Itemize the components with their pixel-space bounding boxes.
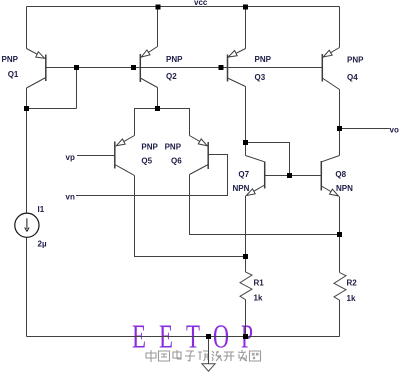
svg-text:PNP: PNP — [141, 143, 158, 152]
wire Q3 collector to Q7 collector — [245, 87, 247, 156]
node R1 bottom — [243, 334, 248, 339]
svg-text:Q8: Q8 — [335, 170, 346, 179]
wire vo stub — [340, 128, 390, 130]
svg-text:Q1: Q1 — [8, 70, 19, 79]
svg-text:R2: R2 — [347, 279, 358, 288]
svg-text:PNP: PNP — [2, 55, 19, 64]
node Q8 emitter / Q6 collector — [337, 232, 342, 237]
node vo — [337, 126, 342, 131]
wire R1 to bottom rail — [245, 300, 247, 337]
transistor Q8 — [321, 156, 339, 197]
svg-text:Q3: Q3 — [255, 73, 266, 82]
node vcc/Q2 emitter — [156, 5, 161, 10]
ground — [202, 364, 215, 371]
node base line / Q3 base — [219, 65, 224, 70]
wire Q1 base-collector loop — [27, 68, 77, 109]
resistor R1 — [240, 272, 252, 300]
current source I1 — [15, 213, 39, 237]
wire Q2 collector vertical — [157, 88, 159, 109]
svg-text:Q5: Q5 — [141, 157, 152, 166]
svg-text:NPN: NPN — [336, 184, 353, 193]
svg-text:NPN: NPN — [233, 184, 250, 193]
svg-text:I1: I1 — [38, 205, 45, 214]
svg-text:Q2: Q2 — [166, 72, 177, 81]
wire Q5 Q6 emitter box — [135, 109, 190, 136]
wire Q6 collector down and right to Q8 emitter — [190, 175, 340, 235]
transistor Q7 — [246, 156, 265, 196]
wire Q7 emitter down to R1 — [245, 196, 247, 272]
transistor Q4 — [322, 48, 339, 90]
wire Q2 emitter vertical — [157, 7, 159, 47]
svg-text:PNP: PNP — [165, 143, 182, 152]
wire vp to Q5 base — [77, 155, 115, 157]
node ground tap — [206, 334, 211, 339]
wire ground stem — [208, 337, 210, 364]
transistor Q2 — [140, 47, 157, 88]
node base line / Q2 base — [131, 65, 136, 70]
svg-text:vp: vp — [66, 153, 75, 162]
wire Q7 base-collector loop — [246, 143, 290, 176]
wire Q1 collector down to I1 — [26, 88, 28, 213]
wire left vertical from vcc to Q1 emitter — [26, 7, 28, 49]
svg-text:vcc: vcc — [194, 0, 208, 7]
wire I1 to bottom rail — [26, 238, 28, 337]
node Q3 collector / Q7 collector — [243, 140, 248, 145]
resistor R2 — [334, 273, 346, 301]
svg-text:1k: 1k — [254, 294, 263, 303]
wire R2 to bottom rail — [339, 300, 341, 336]
svg-text:R1: R1 — [254, 279, 265, 288]
watermark chinese text — [146, 350, 261, 362]
svg-text:Q6: Q6 — [171, 157, 182, 166]
svg-text:vn: vn — [66, 193, 75, 202]
wire Q4 collector to vo node and Q8 collector — [339, 90, 341, 156]
svg-text:PNP: PNP — [255, 55, 272, 64]
node vcc/Q3 emitter — [243, 5, 248, 10]
node Q2 collector / Q5 Q6 emitters — [155, 106, 160, 111]
node Q1 collector loop — [24, 106, 29, 111]
wire bottom rail — [27, 336, 340, 338]
svg-text:Q4: Q4 — [347, 73, 358, 82]
transistor Q6 — [190, 136, 209, 175]
svg-text:vo: vo — [390, 126, 399, 135]
svg-text:1k: 1k — [347, 294, 356, 303]
transistor Q1 — [27, 49, 46, 89]
node base line / Q1 loop — [74, 65, 79, 70]
wire Q7-Q8 base line — [265, 175, 322, 177]
wire Q8 emitter down to R2 — [339, 197, 341, 273]
wire Q4 emitter vertical — [339, 7, 341, 48]
wire Q5 collector down and right to Q7 emitter — [135, 176, 246, 257]
watermark EETOP — [132, 319, 253, 356]
wire Q3 emitter vertical — [245, 7, 247, 49]
wire Q1-Q4 base line — [46, 67, 323, 69]
node Q7 emitter / Q5 collector — [243, 254, 248, 259]
svg-text:PNP: PNP — [347, 56, 364, 65]
transistor Q3 — [228, 49, 246, 87]
svg-text:PNP: PNP — [166, 55, 183, 64]
wire vcc rail — [27, 6, 340, 8]
transistor Q5 — [115, 136, 135, 176]
node Q7 base loop — [287, 173, 292, 178]
svg-text:2µ: 2µ — [38, 240, 47, 249]
wire vn to Q6 base — [76, 155, 228, 196]
svg-text:Q7: Q7 — [238, 170, 249, 179]
